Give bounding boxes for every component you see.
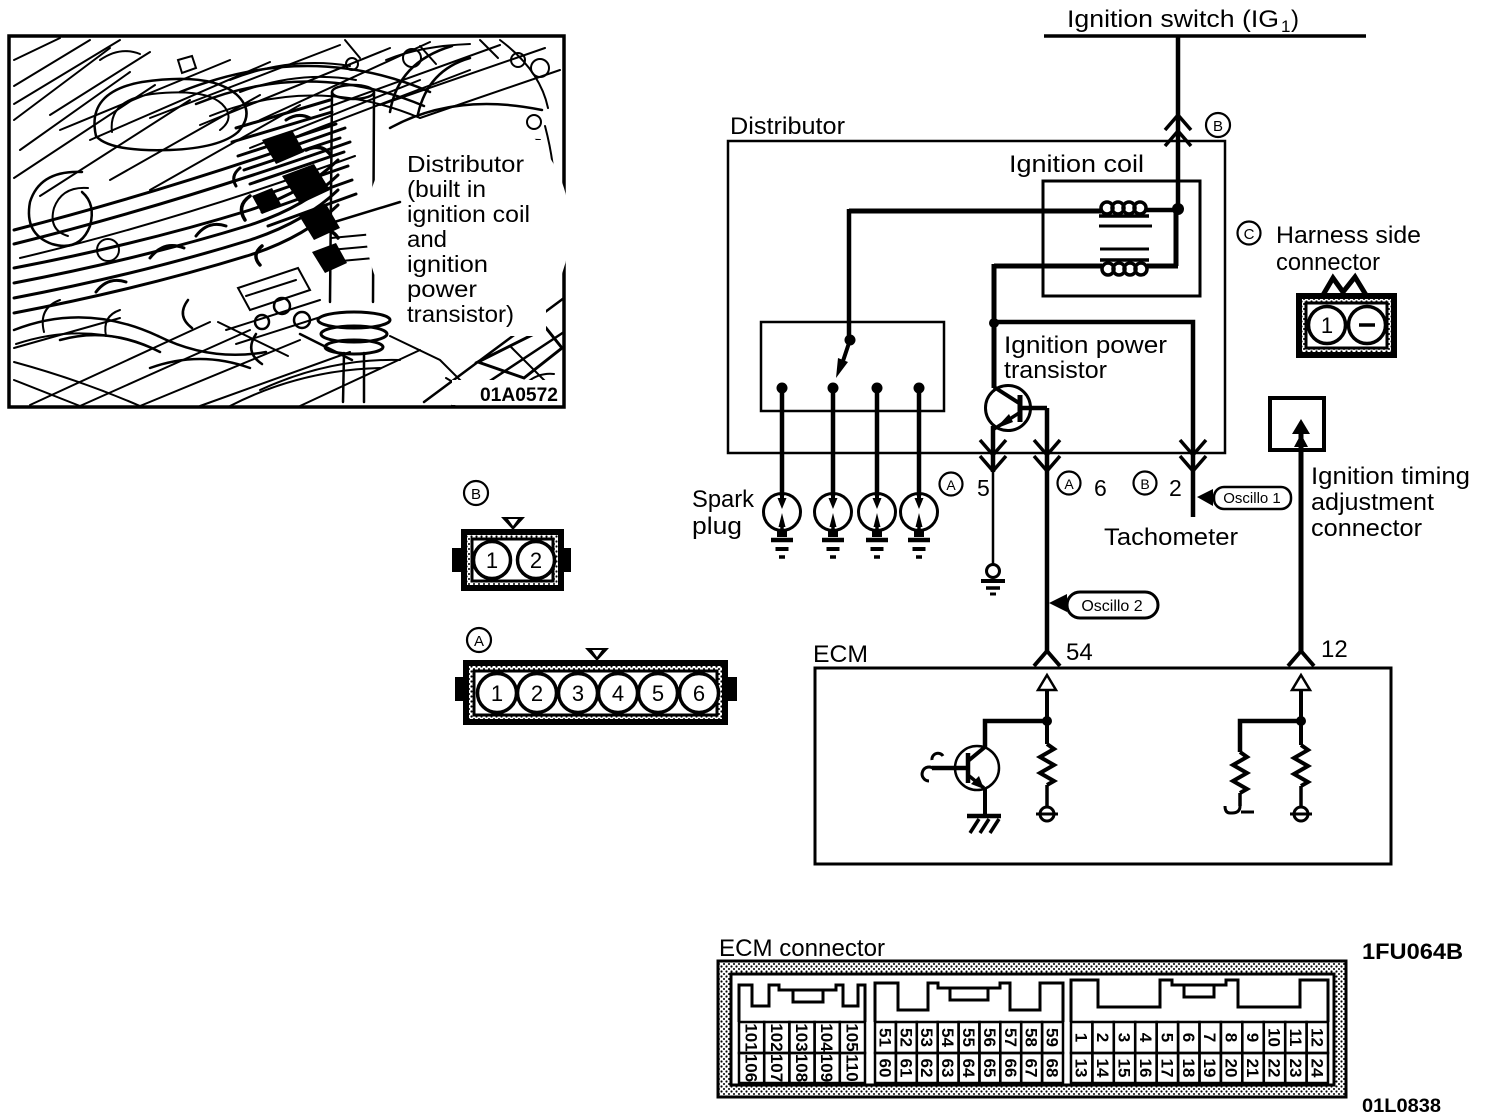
- svg-text:ECM connector: ECM connector: [719, 935, 885, 962]
- svg-text:24: 24: [1307, 1059, 1326, 1078]
- svg-text:103: 103: [792, 1023, 811, 1051]
- svg-text:51: 51: [875, 1028, 894, 1047]
- pin group 2 silhouette: [875, 983, 1063, 1022]
- coil secondary left wire: [994, 264, 1102, 269]
- circled A label (5): [940, 473, 963, 496]
- circled B label (2): [1134, 472, 1157, 495]
- svg-text:Oscillo 1: Oscillo 1: [1223, 490, 1281, 507]
- svg-text:104: 104: [817, 1023, 836, 1052]
- svg-text:2: 2: [531, 681, 543, 706]
- svg-text:ignition: ignition: [407, 251, 488, 277]
- pin group 1 silhouette: [739, 985, 865, 1022]
- wire secondary down to transistor: [992, 264, 997, 388]
- circled A label (6): [1058, 472, 1081, 495]
- terminal circle R1: [1040, 807, 1054, 821]
- svg-text:61: 61: [896, 1059, 915, 1078]
- svg-text:ECM: ECM: [813, 641, 868, 668]
- svg-text:1: 1: [486, 548, 498, 573]
- base wire to A6: [1045, 408, 1050, 652]
- wire junction to B2: [994, 322, 1193, 517]
- svg-text:6: 6: [1094, 475, 1107, 501]
- callout pointer line: [318, 202, 400, 227]
- svg-text:60: 60: [875, 1059, 894, 1078]
- node dot 12: [1296, 716, 1306, 726]
- coil right vertical wire: [1174, 209, 1179, 266]
- resistor R1: [1040, 744, 1054, 785]
- ECM transistor Q2: [922, 746, 999, 790]
- ignition coil box: [1043, 181, 1200, 296]
- svg-text:3: 3: [572, 681, 584, 706]
- svg-text:106: 106: [742, 1054, 761, 1082]
- svg-text:Ignition power: Ignition power: [1004, 332, 1167, 359]
- pin 12 chevron: [1288, 651, 1314, 666]
- svg-text:22: 22: [1265, 1059, 1284, 1078]
- terminal circle R3: [1294, 807, 1308, 821]
- svg-text:64: 64: [959, 1059, 978, 1078]
- svg-text:19: 19: [1200, 1059, 1219, 1078]
- distributor box: [728, 141, 1225, 453]
- resistor R2: [1233, 752, 1247, 793]
- svg-text:transistor): transistor): [407, 301, 514, 327]
- svg-text:23: 23: [1286, 1059, 1305, 1078]
- svg-text:12: 12: [1307, 1028, 1326, 1047]
- Oscillo 1 flag: [1197, 487, 1291, 509]
- spark plug circles with gaps and grounds: [764, 494, 938, 558]
- ECM box: [815, 668, 1391, 864]
- svg-text:B: B: [471, 486, 481, 503]
- svg-text:56: 56: [980, 1028, 999, 1047]
- rotor arm with arrowhead: [843, 340, 850, 361]
- svg-text:21: 21: [1243, 1059, 1262, 1078]
- svg-text:57: 57: [1001, 1028, 1020, 1047]
- pin grid group 2: [875, 1022, 1063, 1083]
- pin group 3 silhouette: [1071, 980, 1328, 1022]
- svg-text:54: 54: [938, 1028, 957, 1047]
- svg-text:6: 6: [1179, 1033, 1198, 1042]
- svg-text:connector: connector: [1276, 249, 1380, 276]
- svg-text:68: 68: [1043, 1059, 1062, 1078]
- wire coil to rotor: [847, 209, 852, 338]
- svg-text:1: 1: [1072, 1033, 1091, 1042]
- svg-text:1FU064B: 1FU064B: [1362, 939, 1463, 964]
- svg-text:5: 5: [652, 681, 664, 706]
- connector A (6 pin): [455, 648, 737, 725]
- crossing chevrons B2: [1180, 440, 1206, 471]
- svg-text:53: 53: [917, 1028, 936, 1047]
- svg-text:52: 52: [896, 1028, 915, 1047]
- ECM input triangle 54: [1038, 675, 1056, 690]
- svg-text:101: 101: [742, 1023, 761, 1051]
- pin grid group 3: [1071, 1022, 1328, 1083]
- svg-text:55: 55: [959, 1028, 978, 1047]
- emitter down: [983, 788, 987, 816]
- ECM connector block outer: [718, 961, 1346, 1097]
- callout bubble: [366, 110, 570, 346]
- svg-text:67: 67: [1022, 1059, 1041, 1078]
- connector C (2 pin harness side): [1296, 277, 1397, 358]
- rotor box: [761, 322, 944, 411]
- svg-text:A: A: [1064, 476, 1074, 492]
- callout text: [407, 151, 530, 327]
- circled A connector label: [467, 628, 491, 652]
- svg-text:A: A: [946, 477, 956, 493]
- svg-text:adjustment: adjustment: [1311, 489, 1434, 516]
- svg-text:(built in: (built in: [407, 176, 486, 202]
- svg-text:18: 18: [1179, 1059, 1198, 1078]
- svg-text:1: 1: [1321, 313, 1333, 338]
- svg-text:62: 62: [917, 1059, 936, 1078]
- svg-text:109: 109: [817, 1054, 836, 1082]
- svg-text:6: 6: [693, 681, 705, 706]
- circled letter B (top): [1206, 113, 1230, 137]
- svg-text:connector: connector: [1311, 515, 1422, 542]
- svg-text:Ignition coil: Ignition coil: [1009, 151, 1144, 178]
- svg-text:15: 15: [1115, 1059, 1134, 1078]
- svg-text:16: 16: [1136, 1059, 1155, 1078]
- svg-text:12: 12: [1321, 636, 1348, 663]
- svg-text:C: C: [1244, 226, 1255, 243]
- svg-text:4: 4: [1136, 1033, 1155, 1043]
- connector B (2 pin): [452, 517, 571, 591]
- svg-text:102: 102: [767, 1023, 786, 1051]
- svg-text:01A0572: 01A0572: [480, 385, 558, 406]
- svg-text:2: 2: [1169, 475, 1182, 501]
- svg-text:Ignition switch (IG: Ignition switch (IG: [1067, 6, 1279, 33]
- connector B crossing chevrons: [1165, 115, 1191, 146]
- svg-text:63: 63: [938, 1059, 957, 1078]
- svg-text:3: 3: [1115, 1033, 1134, 1042]
- spark plug wires: [782, 388, 919, 496]
- svg-text:17: 17: [1157, 1059, 1176, 1078]
- junction dot coil: [1172, 203, 1184, 215]
- svg-text:Distributor: Distributor: [730, 113, 845, 140]
- node dot 54: [1042, 716, 1052, 726]
- svg-text:8: 8: [1222, 1033, 1241, 1042]
- ECM ground hatch: [967, 816, 1001, 833]
- resistor R3: [1294, 745, 1308, 786]
- svg-text:ignition coil: ignition coil: [407, 201, 530, 227]
- svg-text:54: 54: [1066, 639, 1093, 666]
- svg-text:A: A: [474, 633, 484, 650]
- rotor pivot dot: [845, 335, 856, 346]
- svg-text:59: 59: [1043, 1028, 1062, 1047]
- svg-text:11: 11: [1286, 1029, 1305, 1047]
- svg-text:01L0838: 01L0838: [1362, 1096, 1441, 1117]
- svg-text:5: 5: [1157, 1033, 1176, 1042]
- wire from ignition switch down: [1176, 36, 1181, 209]
- ignition switch bus line: [1044, 34, 1366, 38]
- svg-text:9: 9: [1243, 1033, 1262, 1042]
- svg-text:Tachometer: Tachometer: [1104, 524, 1238, 551]
- rotor contact dots: [777, 383, 788, 394]
- ignition power transistor Q1: [986, 386, 1048, 431]
- svg-text:4: 4: [612, 681, 624, 706]
- coil primary wire: [849, 209, 1101, 214]
- svg-text:7: 7: [1200, 1033, 1219, 1042]
- coil secondary winding: [1100, 258, 1149, 262]
- svg-text:B: B: [1140, 476, 1149, 492]
- svg-text:power: power: [407, 276, 477, 302]
- circled B connector label: [464, 481, 488, 505]
- svg-text:transistor: transistor: [1004, 357, 1107, 384]
- arrow inside timing connector: [1292, 419, 1310, 434]
- engine bay photo illustration: [9, 36, 570, 407]
- svg-text:and: and: [407, 226, 447, 252]
- svg-text:65: 65: [980, 1059, 999, 1078]
- svg-text:13: 13: [1072, 1059, 1091, 1078]
- branch wire left: [1240, 721, 1301, 752]
- ignition timing adjustment connector box: [1270, 398, 1324, 450]
- svg-text:58: 58: [1022, 1028, 1041, 1047]
- svg-text:Harness side: Harness side: [1276, 222, 1421, 249]
- pin grid group 1: [739, 1022, 865, 1083]
- hook under R2: [1225, 806, 1240, 813]
- crossing chevrons A6: [1034, 440, 1060, 471]
- wire timing connector to ECM 12: [1299, 434, 1304, 652]
- svg-text:): ): [1291, 6, 1299, 33]
- ECM input triangle 12: [1292, 675, 1310, 690]
- svg-text:10: 10: [1265, 1028, 1284, 1047]
- crossing chevrons A5: [980, 440, 1006, 471]
- svg-text:5: 5: [977, 475, 990, 501]
- coil primary winding: [1099, 214, 1149, 218]
- circled C connector label: [1238, 222, 1261, 245]
- svg-text:2: 2: [1093, 1033, 1112, 1042]
- svg-text:14: 14: [1093, 1059, 1112, 1078]
- svg-text:B: B: [1213, 118, 1223, 135]
- junction dot secondary: [989, 318, 999, 328]
- svg-text:1: 1: [1281, 17, 1290, 36]
- svg-text:Ignition timing: Ignition timing: [1311, 463, 1470, 490]
- coil core lines: [1099, 225, 1152, 228]
- svg-text:66: 66: [1001, 1059, 1020, 1078]
- svg-text:1: 1: [491, 681, 503, 706]
- svg-text:Distributor: Distributor: [407, 151, 524, 177]
- svg-text:108: 108: [792, 1054, 811, 1082]
- Oscillo 2 flag: [1049, 592, 1158, 618]
- pin 54 chevron: [1034, 651, 1060, 666]
- svg-text:plug: plug: [692, 513, 742, 540]
- svg-text:2: 2: [530, 548, 542, 573]
- svg-text:107: 107: [767, 1054, 786, 1082]
- wire to ECM transistor: [985, 721, 1047, 747]
- emitter wire to A5: [991, 426, 996, 472]
- ground symbol A5: [981, 565, 1005, 595]
- svg-text:Spark: Spark: [692, 486, 755, 513]
- svg-text:110: 110: [842, 1054, 861, 1081]
- svg-text:20: 20: [1222, 1059, 1241, 1078]
- svg-text:105: 105: [842, 1023, 861, 1051]
- svg-text:Oscillo 2: Oscillo 2: [1081, 598, 1142, 615]
